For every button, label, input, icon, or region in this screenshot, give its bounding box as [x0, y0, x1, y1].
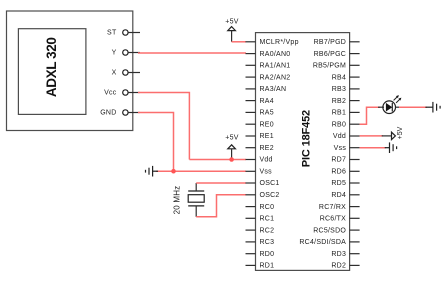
PIC right pin RD6: [331, 169, 359, 176]
PIC right pin RD5: [331, 180, 359, 187]
ground GND2 (right of LED): [425, 102, 440, 113]
svg-text:RB0: RB0: [332, 121, 346, 128]
svg-text:RC2: RC2: [260, 227, 275, 234]
svg-text:RD6: RD6: [331, 169, 346, 176]
PIC right pin RB0: [332, 121, 360, 128]
svg-text:RD7: RD7: [331, 157, 346, 164]
PIC right pin RD3: [331, 251, 359, 258]
PIC 18F452 body U1: [256, 33, 350, 271]
PIC left pin OSC2: [246, 192, 280, 199]
PIC right pin RB6/PGC: [314, 51, 360, 58]
PIC left pin RD0: [246, 251, 275, 258]
svg-text:OSC1: OSC1: [260, 180, 280, 187]
svg-text:RD2: RD2: [331, 263, 346, 270]
svg-text:Vcc: Vcc: [104, 90, 117, 97]
svg-text:RC1: RC1: [260, 216, 275, 223]
PIC right pin RD4: [331, 192, 359, 199]
wire crystal to OSC2: [196, 195, 246, 217]
svg-text:MCLR*/Vpp: MCLR*/Vpp: [260, 39, 299, 46]
junction +5V/Vdd: [229, 157, 234, 162]
svg-text:RB6/PGC: RB6/PGC: [314, 51, 346, 58]
power +5V symbol at Vdd rail: [225, 135, 238, 160]
PIC left pin RA2/AN2: [246, 74, 291, 81]
PIC left pin RC1: [246, 216, 275, 223]
svg-text:RD5: RD5: [331, 180, 346, 187]
PIC left pin RE1: [246, 133, 274, 140]
svg-text:RB3: RB3: [332, 86, 346, 93]
svg-text:RC7/RX: RC7/RX: [319, 204, 346, 211]
svg-text:RC6/TX: RC6/TX: [320, 216, 346, 223]
svg-text:RB2: RB2: [332, 98, 346, 105]
PIC right pin RB3: [332, 86, 360, 93]
svg-text:RB5/PGM: RB5/PGM: [313, 63, 346, 70]
svg-text:OSC2: OSC2: [260, 192, 280, 199]
svg-text:+5V: +5V: [225, 19, 238, 26]
PIC right pin RD7: [331, 157, 359, 164]
wire Y to RA0/AN0: [138, 52, 246, 54]
PIC left pin RE2: [246, 145, 274, 152]
ADXL320 module outer box: [7, 11, 133, 131]
PIC right pin RC6/TX: [320, 216, 360, 223]
svg-text:RA2/AN2: RA2/AN2: [260, 74, 291, 81]
svg-text:RC3: RC3: [260, 239, 275, 246]
power +5V symbol (right, rotated): [382, 126, 404, 139]
PIC right pin RC7/RX: [319, 204, 360, 211]
PIC left pin RD1: [246, 263, 275, 270]
wire Vdd(right) to +5V: [360, 135, 383, 137]
PIC right pin Vdd: [333, 133, 360, 140]
svg-text:RC5/SDO: RC5/SDO: [313, 227, 346, 234]
wire LED to ground: [399, 106, 427, 108]
PIC right pin RB2: [332, 98, 360, 105]
PIC right pin RB1: [332, 110, 360, 117]
power +5V symbol at MCLR: [225, 19, 238, 42]
PIC left pin RA0/AN0: [246, 51, 291, 58]
svg-text:GND: GND: [100, 110, 116, 117]
svg-text:RD3: RD3: [331, 251, 346, 258]
junction GND/Vss: [171, 169, 176, 174]
wire Vss rail: [156, 170, 246, 172]
wire Vss(right) to ground: [360, 147, 386, 149]
PIC left pin Vss: [246, 169, 273, 176]
svg-text:RE0: RE0: [260, 121, 274, 128]
svg-text:RB4: RB4: [332, 74, 346, 81]
wire +5V to MCLR*/Vpp: [232, 41, 246, 43]
svg-text:RB1: RB1: [332, 110, 346, 117]
PIC right pin RC4/SDI/SDA: [299, 239, 359, 246]
svg-text:RB7/PGD: RB7/PGD: [314, 39, 346, 46]
svg-text:Vdd: Vdd: [333, 133, 346, 140]
PIC left pin MCLR*/Vpp: [246, 39, 299, 46]
svg-text:Y: Y: [112, 50, 117, 57]
svg-text:+5V: +5V: [225, 135, 238, 142]
PIC right pin RB4: [332, 74, 360, 81]
svg-text:ST: ST: [107, 30, 117, 37]
wire RB0 to LED: [360, 107, 380, 124]
svg-text:RE1: RE1: [260, 133, 274, 140]
svg-text:RA4: RA4: [260, 98, 274, 105]
svg-text:RA5: RA5: [260, 110, 274, 117]
svg-text:RA3/AN: RA3/AN: [260, 86, 287, 93]
svg-text:20 MHz: 20 MHz: [172, 186, 181, 215]
svg-text:RC4/SDI/SDA: RC4/SDI/SDA: [299, 239, 346, 246]
ground GND1 (left of Vss rail): [146, 166, 159, 177]
wire crystal to OSC1: [196, 182, 246, 184]
PIC right pin RC5/SDO: [313, 227, 359, 234]
svg-text:X: X: [112, 70, 117, 77]
svg-text:Vdd: Vdd: [260, 157, 273, 164]
svg-text:ADXL 320: ADXL 320: [44, 38, 59, 98]
svg-text:RC0: RC0: [260, 204, 275, 211]
ADXL320 module inner box: [18, 29, 86, 115]
PIC left pin Vdd: [246, 157, 273, 164]
svg-text:+5V: +5V: [397, 126, 404, 139]
PIC left pin RA1/AN1: [246, 63, 291, 70]
PIC right pin RB5/PGM: [313, 63, 360, 70]
svg-text:RD1: RD1: [260, 263, 275, 270]
ADXL pin X: [112, 70, 140, 77]
PIC left pin RC2: [246, 227, 275, 234]
LED D1: [378, 95, 401, 113]
ADXL pin GND: [100, 110, 140, 117]
ground GND3 (right of Vss): [385, 142, 397, 153]
PIC left pin RC3: [246, 239, 275, 246]
crystal X1 20 MHz: [172, 183, 204, 217]
ADXL pin Vcc: [104, 90, 140, 97]
ADXL pin Y: [112, 50, 140, 57]
svg-text:Vss: Vss: [334, 145, 347, 152]
wire Vdd rail: [189, 159, 246, 161]
svg-text:RD4: RD4: [331, 192, 346, 199]
PIC right pin RB7/PGD: [314, 39, 360, 46]
PIC left pin RA5: [246, 110, 274, 117]
PIC left pin RE0: [246, 121, 274, 128]
svg-text:Vss: Vss: [260, 169, 273, 176]
svg-text:RA0/AN0: RA0/AN0: [260, 51, 291, 58]
svg-text:PIC 18F452: PIC 18F452: [300, 110, 312, 167]
PIC left pin OSC1: [246, 180, 280, 187]
PIC left pin RC0: [246, 204, 275, 211]
svg-text:RA1/AN1: RA1/AN1: [260, 63, 291, 70]
ADXL pin ST: [107, 30, 140, 37]
PIC left pin RA3/AN: [246, 86, 287, 93]
svg-text:RD0: RD0: [260, 251, 275, 258]
PIC right pin RD2: [331, 263, 359, 270]
wire Vcc to Vdd rail: [138, 93, 189, 160]
wire GND to Vss rail: [138, 113, 174, 172]
svg-text:RE2: RE2: [260, 145, 274, 152]
PIC right pin Vss: [334, 145, 360, 152]
PIC left pin RA4: [246, 98, 274, 105]
